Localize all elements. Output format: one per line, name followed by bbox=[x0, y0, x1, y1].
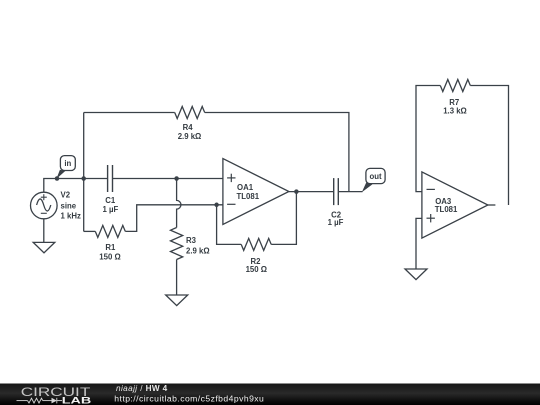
wire vertical trunk x=83.7 (R4 loop top to R1 level) bbox=[83, 113, 85, 232]
logo diode triangle bbox=[52, 398, 57, 404]
capacitor C2 plates bbox=[334, 178, 339, 205]
wire R3 branch upper with hop over minus wire bbox=[177, 179, 181, 228]
wire R3 bottom to ground bbox=[176, 260, 178, 295]
resistor R3 2.9k vertical bbox=[171, 228, 183, 260]
svg-text:1.3 kΩ: 1.3 kΩ bbox=[443, 107, 467, 116]
out flag pointer wedge bbox=[362, 182, 373, 192]
svg-text:V2: V2 bbox=[61, 191, 71, 200]
ground below V2 bbox=[33, 242, 55, 253]
svg-text:1 kHz: 1 kHz bbox=[61, 212, 81, 221]
svg-text:niaajj / HW 4: niaajj / HW 4 bbox=[116, 384, 168, 393]
svg-text:TL081: TL081 bbox=[237, 192, 260, 201]
OA1 plus input mark bbox=[227, 174, 235, 205]
ground below R3 bbox=[166, 295, 188, 306]
V2 plus mark bbox=[41, 194, 47, 213]
V2 sine squiggle bbox=[37, 199, 51, 211]
wire R4 loop left + top left segment bbox=[84, 112, 175, 114]
junction node inverting input bbox=[214, 203, 219, 208]
OA1 minus input mark bbox=[227, 203, 235, 205]
OA3 plus input mark bbox=[427, 217, 435, 219]
ground below OA3 bbox=[405, 269, 427, 280]
wire OA3 output stub bbox=[488, 204, 496, 206]
svg-text:OA1: OA1 bbox=[237, 183, 254, 192]
OA3 minus input mark bbox=[427, 189, 435, 222]
wire R2 right leg up to OA1 output bbox=[271, 192, 296, 245]
junction node R3 tap bbox=[174, 176, 179, 181]
svg-text:in: in bbox=[64, 159, 71, 168]
svg-text:out: out bbox=[369, 172, 382, 181]
wire R1 right to OA1 inverting input bbox=[125, 205, 223, 232]
flag box "out" bbox=[366, 168, 385, 183]
svg-text:http://circuitlab.com/c5zfbd4p: http://circuitlab.com/c5zfbd4pvh9xu bbox=[114, 393, 264, 403]
wire R7 right leg down bbox=[470, 86, 508, 206]
R7 loop: OA3 inverting lead up and across bbox=[416, 86, 440, 192]
capacitor C1 plates bbox=[108, 165, 113, 192]
op-amp OA3 triangle bbox=[422, 172, 488, 238]
svg-text:TL081: TL081 bbox=[435, 205, 458, 214]
svg-text:1 µF: 1 µF bbox=[103, 205, 119, 214]
svg-text:150 Ω: 150 Ω bbox=[246, 265, 267, 274]
wire C2 right plate to out flag bbox=[338, 191, 362, 193]
svg-text:2.9 kΩ: 2.9 kΩ bbox=[178, 132, 202, 141]
footer bar bbox=[0, 384, 540, 405]
V2 minus mark bbox=[41, 212, 47, 214]
wire R2 left branch down from inverting node bbox=[217, 205, 242, 245]
logo circuit squiggle with resistor and diode bbox=[17, 398, 63, 404]
svg-text:LAB: LAB bbox=[62, 395, 92, 405]
resistor R1 150 ohm bbox=[95, 225, 125, 237]
junction node main trunk bbox=[81, 176, 86, 181]
resistor R7 1.3k bbox=[440, 80, 470, 92]
svg-text:R1: R1 bbox=[105, 243, 116, 252]
wire V2 bottom to ground bbox=[43, 219, 45, 243]
svg-text:150 Ω: 150 Ω bbox=[99, 252, 120, 261]
source V2 circle bbox=[31, 192, 58, 219]
wire R4 right to output node bbox=[205, 113, 349, 192]
svg-text:sine: sine bbox=[61, 202, 77, 211]
svg-text:1 µF: 1 µF bbox=[328, 218, 344, 227]
wire V2 top to main node bbox=[44, 179, 108, 193]
wire OA3 non-inverting input to ground bbox=[416, 218, 422, 269]
svg-text:R4: R4 bbox=[183, 123, 194, 132]
in flag pointer wedge bbox=[56, 170, 65, 179]
resistor R4 2.9k bbox=[175, 107, 205, 119]
svg-text:C1: C1 bbox=[105, 196, 116, 205]
wire R1 left lead bbox=[84, 230, 96, 232]
svg-text:R3: R3 bbox=[186, 236, 197, 245]
junction node at in-flag attach bbox=[55, 176, 60, 181]
junction node OA1 output bbox=[294, 189, 299, 194]
resistor R2 150 ohm bbox=[241, 238, 271, 250]
wire C1 right plate to OA1 + input bbox=[113, 178, 223, 180]
wire OA1 output to C2 bbox=[289, 191, 334, 193]
svg-text:2.9 kΩ: 2.9 kΩ bbox=[186, 246, 210, 255]
op-amp OA1 triangle bbox=[223, 159, 289, 225]
flag box "in" bbox=[60, 156, 75, 171]
svg-text:R7: R7 bbox=[449, 98, 459, 107]
